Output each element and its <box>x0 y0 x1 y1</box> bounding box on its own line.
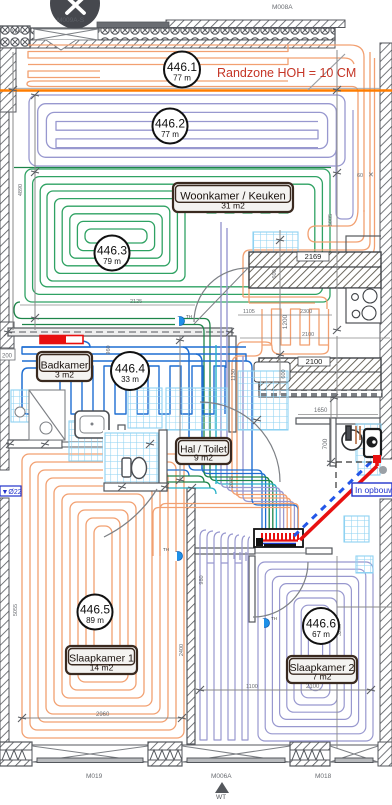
pipe bundle hall horizontal <box>124 470 189 476</box>
svg-text:446.4: 446.4 <box>115 362 145 376</box>
bathroom tiles right of shower <box>128 388 162 428</box>
svg-text:5085: 5085 <box>328 214 334 226</box>
left wall mid block <box>0 322 14 348</box>
top wall slab strip <box>166 20 345 28</box>
svg-text:980: 980 <box>199 575 205 584</box>
hall tiles near kitchen <box>238 371 288 430</box>
toilet room right wall <box>159 430 167 491</box>
thermostat living <box>175 314 192 326</box>
dimension ticks <box>31 91 39 99</box>
bedroom2 top tiles <box>356 556 373 573</box>
stove with 4 burners <box>346 288 381 323</box>
heating loop 446.5 orange spiral bedroom1 <box>22 454 184 738</box>
interior wall living/hall vertical <box>229 336 236 432</box>
kitchen counter 2100 <box>259 358 381 391</box>
svg-text:HWA: HWA <box>8 29 21 35</box>
left wall lower <box>0 348 9 470</box>
svg-text:3 m2: 3 m2 <box>55 370 74 380</box>
svg-text:▼Ø22: ▼Ø22 <box>2 489 22 496</box>
top-left wall corner block <box>0 26 30 48</box>
svg-text:77 m: 77 m <box>161 130 179 139</box>
heating loop 446.1 randzone orange serpentine <box>28 45 288 65</box>
svg-text:1200: 1200 <box>282 314 289 329</box>
bedroom2 supply pipes <box>234 552 246 561</box>
circuit circle 446.2 <box>153 109 188 144</box>
svg-text:33 m: 33 m <box>121 375 139 384</box>
svg-text:2085: 2085 <box>229 476 235 488</box>
pipes converge to manifold <box>189 464 262 529</box>
svg-text:7 m2: 7 m2 <box>313 672 332 682</box>
wall hall/bedroom2 horizontal <box>195 548 255 554</box>
hall closet wall vertical <box>249 556 255 622</box>
top window cross (balcony door) <box>34 29 98 50</box>
circuit circle 446.1 <box>164 52 200 88</box>
svg-text:2300: 2300 <box>300 309 312 315</box>
in opbouw label <box>352 483 392 496</box>
red supply pipe diagonal <box>300 466 377 540</box>
heating loop 446.6 purple field bedroom2 <box>258 562 373 741</box>
door arc hall big <box>200 402 280 482</box>
left wall upper hatch <box>0 48 16 112</box>
pipe bundle hall vertical <box>215 345 217 484</box>
bedroom2 right tiles <box>344 516 369 542</box>
svg-text:600: 600 <box>281 369 287 378</box>
circuit circle 446.4 <box>111 352 149 390</box>
svg-text:79 m: 79 m <box>103 257 121 266</box>
top wall diagonal hatch band <box>18 40 335 48</box>
svg-text:M009A-S: M009A-S <box>57 17 85 24</box>
red bar bathroom (verdeler aansluiting) <box>40 336 83 344</box>
svg-text:In opbouw: In opbouw <box>355 485 392 495</box>
svg-text:2100: 2100 <box>306 357 323 366</box>
svg-text:600: 600 <box>272 269 278 278</box>
top wall insulation band with circles <box>30 28 335 40</box>
svg-text:2960: 2960 <box>96 712 110 718</box>
blue dashed pipe along red <box>294 462 371 536</box>
toilet room <box>103 430 167 491</box>
heating loop 446.4 blue bathroom serpentine <box>22 341 90 347</box>
bathroom bottom wall <box>8 440 130 448</box>
bright orange zone line <box>0 89 392 91</box>
thermostat bedroom2 <box>260 616 277 628</box>
svg-text:Randzone HOH = 10 CM: Randzone HOH = 10 CM <box>217 66 356 80</box>
heating loop 446.2 purple field living room <box>29 95 345 166</box>
svg-text:TH: TH <box>163 547 169 552</box>
svg-text:4890: 4890 <box>18 184 24 196</box>
circuit circle 446.6 <box>303 608 339 644</box>
svg-text:77 m: 77 m <box>173 74 191 83</box>
front door leaf <box>308 54 345 90</box>
wall below kitchen counter <box>259 390 382 397</box>
label badkamer <box>37 352 92 381</box>
wall bedroom1/bedroom2 <box>187 488 195 744</box>
purple return u-bends right side <box>336 110 353 219</box>
svg-text:9 m2: 9 m2 <box>194 453 213 463</box>
svg-text:WT: WT <box>216 794 226 800</box>
toilet fixture <box>122 458 147 479</box>
heating loop 446.3 green spiral living room <box>25 169 330 302</box>
svg-text:60: 60 <box>357 173 363 179</box>
svg-text:446.3: 446.3 <box>97 244 127 258</box>
svg-text:31 m2: 31 m2 <box>221 201 245 211</box>
green supply line below purple field <box>14 167 331 169</box>
north arrow WT <box>215 782 229 793</box>
circuit circle 446.3 <box>95 236 130 271</box>
washbasin <box>69 421 103 461</box>
circuit circle 446.5 <box>78 595 113 630</box>
toilet room left wall <box>118 425 125 467</box>
kitchen unit outline notch <box>346 236 381 253</box>
kitchen tile grid <box>253 232 298 258</box>
shower <box>29 390 65 440</box>
svg-text:2169: 2169 <box>305 252 322 261</box>
svg-text:446.1: 446.1 <box>167 60 197 74</box>
WC top wall <box>296 418 380 424</box>
randzone return verticals right side <box>288 45 364 212</box>
door arc living-hall <box>194 268 248 322</box>
dimension lines <box>34 95 36 330</box>
svg-text:200: 200 <box>2 354 13 360</box>
svg-text:1130: 1130 <box>231 369 237 381</box>
door arc bedroom1 <box>104 489 157 537</box>
svg-text:M018: M018 <box>315 773 332 780</box>
interior wall living/bathroom <box>8 328 232 336</box>
right wall lower <box>380 499 392 749</box>
svg-text:700: 700 <box>322 438 329 449</box>
svg-text:M006A: M006A <box>211 773 232 780</box>
svg-text:1650: 1650 <box>314 408 328 414</box>
svg-text:446.2: 446.2 <box>155 117 185 131</box>
toilet room bottom wall <box>104 483 167 491</box>
left wall main <box>0 112 9 322</box>
right wall upper <box>380 43 392 459</box>
door arc bedroom2 <box>253 562 308 617</box>
orange exit to bundle <box>232 342 329 496</box>
kitchen randzone orange serpentine <box>243 208 375 303</box>
black dashed service line <box>336 461 376 463</box>
svg-text:89 m: 89 m <box>86 616 104 625</box>
svg-text:5055: 5055 <box>13 604 19 616</box>
svg-text:✕: ✕ <box>368 172 374 179</box>
svg-text:TH: TH <box>186 314 192 319</box>
svg-text:2100: 2100 <box>302 332 314 338</box>
purple loops from manifold to bedroom2 strip <box>200 530 250 563</box>
svg-text:446.6: 446.6 <box>306 617 336 631</box>
WC tiles <box>356 424 381 462</box>
boiler box <box>364 429 381 457</box>
svg-text:960: 960 <box>106 345 112 354</box>
svg-text:1100: 1100 <box>246 684 258 690</box>
label hal/toilet <box>176 438 231 464</box>
WC toilet <box>342 426 362 450</box>
manifold verdeler <box>254 529 303 547</box>
svg-text:2125: 2125 <box>130 299 142 305</box>
label slaapkamer2 <box>287 656 357 683</box>
svg-text:446.5: 446.5 <box>80 603 110 617</box>
svg-text:M019: M019 <box>86 773 103 780</box>
o22 label left <box>0 486 22 496</box>
green return passes along wall to bundle <box>14 302 210 475</box>
svg-text:67 m: 67 m <box>312 630 330 639</box>
svg-text:2400: 2400 <box>179 644 185 656</box>
label woonkamer/keuken <box>173 183 293 212</box>
bedroom2 left strip serpentine <box>200 563 248 740</box>
blue returns down to manifold <box>183 347 202 469</box>
svg-text:TH: TH <box>271 616 277 621</box>
thermostat bedroom1 <box>163 547 183 561</box>
bottom wall piers and windows <box>0 742 32 766</box>
close button <box>50 0 100 29</box>
left wall bedroom1 <box>0 498 9 742</box>
svg-text:2100: 2100 <box>306 684 320 690</box>
label slaapkamer1 <box>66 646 137 674</box>
kitchen counter 2169 <box>249 252 381 288</box>
green serpentine teeth under label <box>198 184 288 213</box>
svg-text:14 m2: 14 m2 <box>90 663 114 673</box>
svg-text:M008A: M008A <box>272 4 293 11</box>
bathroom tile sink left <box>11 390 30 422</box>
svg-text:1105: 1105 <box>243 309 255 315</box>
WC left wall <box>330 418 336 466</box>
